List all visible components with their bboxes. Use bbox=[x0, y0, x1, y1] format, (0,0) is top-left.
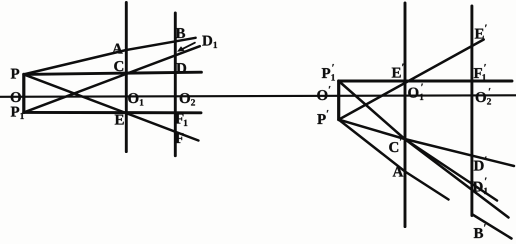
ray P' A' bbox=[339, 120, 405, 172]
label F bbox=[175, 133, 183, 143]
lens 1' plane (O1') bbox=[404, 3, 407, 227]
arrow shaft near D1 bbox=[180, 43, 195, 51]
label E bbox=[115, 115, 124, 125]
label A bbox=[112, 44, 123, 54]
object segment P1' P' bbox=[337, 81, 340, 120]
label O1' bbox=[408, 84, 423, 100]
label E' top bbox=[475, 25, 487, 39]
ray A' toward B' (before gap) bbox=[405, 172, 449, 200]
label O' bbox=[317, 86, 330, 100]
axis (optical axis O O1 O2 O' O1' O2') bbox=[0, 95, 516, 97]
label A' bbox=[393, 163, 406, 177]
label F1' bbox=[474, 64, 486, 80]
ray C' D' bbox=[405, 139, 514, 166]
label B bbox=[176, 28, 185, 38]
label O2 bbox=[180, 93, 195, 105]
label D' bbox=[474, 157, 487, 171]
ray B' continuation bbox=[473, 215, 512, 239]
ray P A (incident) bbox=[24, 50, 127, 74]
label P1' bbox=[322, 64, 335, 80]
label P' bbox=[317, 110, 328, 124]
label C' bbox=[389, 138, 401, 152]
label O bbox=[11, 92, 21, 102]
ray P' C' bbox=[339, 120, 405, 139]
ray P E F bbox=[24, 74, 199, 140]
lens 1 plane (O1) bbox=[125, 3, 128, 152]
top horizontal P C D bbox=[24, 72, 202, 74]
label E' mid bbox=[392, 64, 404, 78]
top horizontal P1' E' F1' bbox=[339, 80, 512, 83]
object segment P P1 bbox=[22, 74, 25, 112]
lens 2 plane (O2) bbox=[174, 13, 177, 156]
label D1' bbox=[473, 178, 488, 194]
lens 2' plane (O2') bbox=[470, 6, 473, 216]
ray P1' C' bbox=[339, 81, 405, 139]
label O1 bbox=[128, 93, 143, 105]
label O2' bbox=[476, 88, 491, 104]
label P1 bbox=[11, 107, 24, 119]
label F1 bbox=[175, 114, 187, 126]
label D1 bbox=[202, 36, 217, 48]
ray C' steep extension bbox=[405, 139, 509, 218]
label D bbox=[176, 63, 186, 73]
ray A B (refracted) bbox=[126, 38, 195, 50]
ray P' E' bbox=[339, 40, 484, 120]
ray C' D1' bbox=[405, 139, 497, 201]
label P bbox=[11, 69, 19, 79]
label C bbox=[114, 61, 123, 71]
ray P1 C D1 bbox=[24, 46, 200, 112]
arrowhead near lens 2 bbox=[177, 46, 185, 52]
bottom horizontal P1 E F1 bbox=[24, 111, 201, 114]
label B' bbox=[474, 224, 486, 238]
